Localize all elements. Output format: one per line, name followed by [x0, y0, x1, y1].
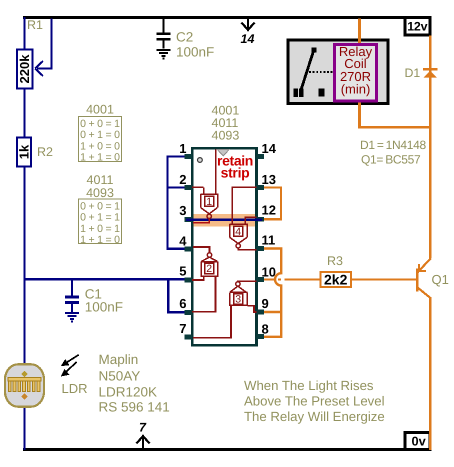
svg-text:6: 6 — [179, 296, 186, 311]
svg-text:The Relay Will Energize: The Relay Will Energize — [244, 409, 385, 424]
svg-text:2: 2 — [179, 172, 186, 187]
wire: navy branch to pin 6 — [168, 279, 184, 312]
svg-text:4093: 4093 — [212, 129, 240, 143]
svg-text:100nF: 100nF — [176, 45, 214, 60]
gate U1d (4) NOR — [230, 224, 248, 248]
svg-text:strip: strip — [221, 165, 250, 181]
pin 7 ground marker arrow — [137, 421, 150, 449]
svg-text:0 + 0 = 1: 0 + 0 = 1 — [80, 118, 120, 130]
wire: navy net pins 1-2-4 — [168, 157, 185, 249]
wire: gate1 output to pin3 — [193, 219, 209, 223]
svg-text:12: 12 — [262, 203, 276, 218]
svg-text:LDR120K: LDR120K — [99, 385, 158, 400]
ground symbol under C2 — [157, 50, 171, 60]
svg-text:14: 14 — [241, 32, 255, 46]
resistor R2 1k — [17, 138, 54, 167]
svg-text:1 + 0 = 0: 1 + 0 = 0 — [80, 140, 120, 152]
svg-text:0 + 0 = 1: 0 + 0 = 1 — [80, 201, 120, 213]
wire: top +12v rail — [23, 16, 405, 19]
wire: gate4 output to pin11 — [238, 248, 256, 250]
wire: pin10 to R3 to Q1 base — [264, 278, 416, 280]
svg-text:13: 13 — [262, 172, 276, 187]
pin 7 pad — [185, 335, 193, 340]
pin 6 pad — [185, 310, 193, 315]
LDR photocell — [5, 364, 44, 406]
capacitor C2 100nF — [157, 19, 171, 49]
svg-text:D1 = 1N4148: D1 = 1N4148 — [360, 138, 427, 152]
wire: R1 wiper arm — [35, 19, 52, 77]
svg-text:Above The Preset Level: Above The Preset Level — [244, 394, 385, 409]
svg-text:7: 7 — [179, 321, 186, 336]
light arrows into LDR — [61, 355, 79, 377]
pin 14 pad — [256, 154, 264, 159]
ground symbol under C1 — [65, 313, 79, 322]
wire: pin12 to gate4 input — [245, 217, 256, 224]
wire: navy net rail to pin 5 with C1 — [25, 278, 185, 280]
pin 2 pad — [185, 185, 193, 190]
pin 8 pad — [256, 334, 264, 339]
svg-text:N50AY: N50AY — [99, 369, 141, 384]
capacitor C1 100nF — [65, 280, 79, 312]
gate U1b (2) NOR inverted — [201, 253, 218, 276]
svg-text:10: 10 — [262, 264, 276, 279]
pin numbers right — [262, 141, 277, 337]
wire: right rail (orange) lower — [429, 298, 432, 451]
svg-text:1 + 1 = 0: 1 + 1 = 0 — [80, 152, 120, 164]
wire: right rail (orange) upper — [429, 36, 432, 259]
retain strip highlight band — [194, 214, 256, 226]
IC U1 body — [192, 148, 256, 345]
svg-text:9: 9 — [262, 296, 269, 311]
svg-text:4001: 4001 — [86, 103, 114, 117]
svg-text:220k: 220k — [17, 54, 32, 84]
svg-text:1k: 1k — [17, 144, 32, 159]
pin squares right — [256, 154, 264, 339]
wire: relay branch from +12v rail — [360, 19, 431, 128]
svg-text:RS 596 141: RS 596 141 — [99, 400, 170, 415]
resistor R1 220k preset — [17, 18, 43, 89]
svg-text:0 + 1 = 0: 0 + 1 = 0 — [80, 129, 120, 141]
label C2 100nF — [176, 30, 214, 60]
svg-text:8: 8 — [262, 322, 269, 337]
pin 5 pad — [185, 278, 193, 283]
svg-text:100nF: 100nF — [85, 300, 123, 315]
svg-text:Q1= BC557: Q1= BC557 — [361, 153, 421, 167]
label circuit description — [244, 378, 385, 424]
svg-text:R3: R3 — [327, 254, 343, 268]
label Maplin part numbers — [99, 352, 170, 415]
pin squares left — [185, 154, 193, 339]
svg-text:1: 1 — [179, 141, 186, 156]
wire: gate2 output to pin4 — [193, 247, 210, 253]
svg-text:1 + 0 = 1: 1 + 0 = 1 — [80, 223, 120, 235]
diode D1 1N4148 — [405, 66, 438, 80]
wire: orange loop pin13-pin12 — [264, 188, 281, 220]
wire: orange loop pin11-pin9-pin8 — [264, 249, 281, 337]
svg-text:1 + 1 = 0: 1 + 1 = 0 — [80, 234, 120, 246]
svg-text:0 + 1 = 1: 0 + 1 = 1 — [80, 212, 120, 224]
svg-text:Q1: Q1 — [432, 272, 449, 287]
wire: gate3 output to pin10 — [238, 280, 256, 283]
pin 3 pad — [185, 217, 193, 222]
label retain strip — [217, 153, 253, 181]
svg-text:1: 1 — [206, 196, 212, 208]
svg-text:4: 4 — [235, 226, 241, 238]
IC truth table 4011/4093 — [79, 173, 122, 246]
svg-text:7: 7 — [139, 421, 147, 435]
wire: pin13 to gate4 input — [232, 187, 256, 224]
svg-text:3: 3 — [235, 294, 241, 306]
pin 9 pad — [256, 310, 264, 315]
pin 13 pad — [256, 185, 264, 190]
svg-text:R1: R1 — [27, 18, 43, 32]
svg-text:R2: R2 — [37, 145, 53, 159]
resistor R3 2k2 — [321, 254, 352, 288]
svg-text:D1: D1 — [405, 66, 421, 80]
svg-text:4093: 4093 — [86, 186, 114, 200]
node 0v supply box — [405, 433, 430, 450]
pin numbers left — [179, 141, 187, 336]
label IC types 4001 4011 4093 — [212, 104, 240, 143]
IC truth table 4001 — [79, 103, 122, 164]
relay contact symbol — [294, 48, 335, 98]
wire: pin2 to gate1 input — [192, 186, 204, 188]
svg-text:0v: 0v — [412, 434, 427, 449]
svg-text:C2: C2 — [176, 30, 193, 45]
svg-text:11: 11 — [262, 233, 276, 248]
svg-text:2: 2 — [206, 263, 212, 275]
node 12v supply box — [405, 18, 430, 36]
svg-text:Maplin: Maplin — [99, 352, 139, 367]
gate U1c (3) NOR inverted — [230, 282, 248, 305]
IC pin1 dot — [198, 158, 203, 163]
svg-text:LDR: LDR — [62, 381, 88, 396]
transistor Q1 BC557 — [417, 258, 431, 298]
gate U1a (1) NOR — [201, 150, 218, 219]
label D1/Q1 part numbers — [360, 138, 427, 167]
IC notch — [218, 150, 230, 156]
svg-text:4: 4 — [179, 234, 187, 249]
pin 11 pad — [256, 246, 264, 251]
label C1 100nF — [85, 287, 123, 315]
wire: bottom 0v rail — [23, 448, 404, 451]
svg-text:3: 3 — [179, 203, 186, 218]
svg-text:14: 14 — [262, 141, 277, 156]
svg-text:12v: 12v — [407, 19, 427, 33]
relay coil box 270R — [335, 44, 377, 101]
wire: pin5 to gate2 input — [192, 276, 204, 280]
pin 14 supply marker arrow — [241, 19, 255, 46]
svg-text:5: 5 — [179, 264, 186, 279]
svg-text:2k2: 2k2 — [324, 272, 348, 288]
wire: gate3 input to pin7 — [193, 305, 231, 338]
svg-text:(min): (min) — [341, 82, 371, 97]
wire: gate2 input to pin6 — [192, 276, 216, 312]
pin 12 pad — [256, 217, 264, 222]
wire: retain strip navy link pin3 to pin12 — [186, 219, 262, 221]
pin 10 pad — [256, 277, 264, 282]
relay contact box — [288, 40, 388, 104]
pin 4 pad — [185, 247, 193, 252]
svg-text:4011: 4011 — [87, 173, 114, 187]
svg-text:When The Light Rises: When The Light Rises — [244, 378, 374, 393]
pin 1 pad — [185, 154, 193, 159]
wire: gate3 input to pin9 — [247, 306, 256, 312]
wire: left rail (navy) — [23, 17, 25, 450]
